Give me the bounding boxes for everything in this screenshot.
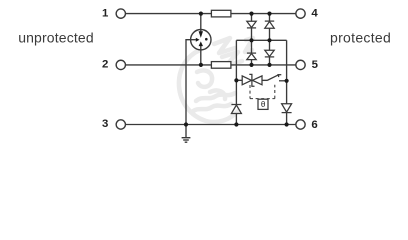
wire line 3 bbox=[125, 124, 296, 126]
svg-text:1: 1 bbox=[102, 7, 109, 19]
node line3/right rail bbox=[285, 122, 289, 126]
terminal 2 bbox=[116, 60, 125, 69]
suppressor diode bidirectional U1 bbox=[242, 74, 262, 86]
wire GDT third electrode to ground bbox=[186, 40, 191, 125]
svg-text:5: 5 bbox=[312, 59, 319, 71]
mechanical linkage dashed bbox=[250, 85, 275, 99]
wire GDT vertical bottom bbox=[200, 50, 202, 65]
wire TVS branch right bbox=[262, 79, 267, 81]
gas discharge tube F1 bbox=[190, 30, 211, 50]
diode D4 (right chain bottom, cathode down) bbox=[265, 50, 274, 57]
diode D3 (right chain top, cathode up) bbox=[265, 21, 274, 28]
node line3/ground bbox=[184, 122, 188, 126]
diode D6 (right rail lower, cathode down) bbox=[282, 104, 292, 113]
svg-text:4: 4 bbox=[311, 8, 318, 20]
wire TVS branch left bbox=[236, 79, 242, 81]
node line1/GDT bbox=[199, 12, 203, 16]
terminal 1 bbox=[116, 9, 125, 18]
terminal 3 bbox=[116, 120, 125, 129]
node line2/left chain bbox=[249, 63, 253, 67]
diode D5 (left rail lower, cathode up) bbox=[231, 105, 241, 114]
terminal 6 bbox=[296, 120, 305, 129]
wire right rail lower bbox=[286, 113, 288, 125]
thermal disconnect switch S1 bbox=[267, 74, 287, 81]
wire ground stub bbox=[185, 125, 187, 138]
node TVS/left rail bbox=[234, 78, 238, 82]
node line2/right chain bbox=[267, 63, 271, 67]
junction dots bbox=[184, 12, 289, 127]
terminal 5 bbox=[296, 60, 305, 69]
wire line 1 bbox=[125, 13, 296, 15]
wire GDT vertical top bbox=[200, 14, 202, 30]
node line2/GDT bbox=[199, 63, 203, 67]
svg-text:2: 2 bbox=[102, 58, 108, 70]
wire mid rail horizontal bbox=[236, 39, 286, 41]
node midwire/right chain bbox=[267, 38, 271, 42]
node line1/left chain bbox=[249, 12, 253, 16]
wire right chain segments bbox=[269, 14, 271, 65]
diode D2 (left chain bottom, cathode up) bbox=[247, 53, 256, 60]
node switch/right rail bbox=[285, 79, 289, 83]
resistor R2 bbox=[211, 62, 231, 69]
node line1/right chain bbox=[267, 12, 271, 16]
wire left chain segments bbox=[251, 14, 253, 65]
resistor R1 bbox=[211, 10, 231, 17]
svg-text:unprotected: unprotected bbox=[18, 30, 94, 46]
terminal 4 bbox=[296, 9, 305, 18]
wire left rail lower bbox=[235, 114, 237, 125]
svg-text:3: 3 bbox=[102, 118, 108, 130]
node line3/left rail bbox=[234, 122, 238, 126]
wire left rail bbox=[235, 40, 237, 104]
wire right rail bbox=[286, 40, 288, 104]
node midwire/left chain bbox=[249, 38, 253, 42]
svg-text:θ: θ bbox=[261, 100, 266, 109]
watermark logo bbox=[179, 38, 253, 122]
diode D1 (left chain top, cathode down) bbox=[247, 21, 256, 28]
wire line 2 bbox=[125, 64, 296, 66]
svg-text:6: 6 bbox=[311, 119, 317, 131]
ground bbox=[182, 138, 191, 143]
svg-text:protected: protected bbox=[330, 30, 391, 46]
thermal element theta bbox=[258, 99, 268, 109]
